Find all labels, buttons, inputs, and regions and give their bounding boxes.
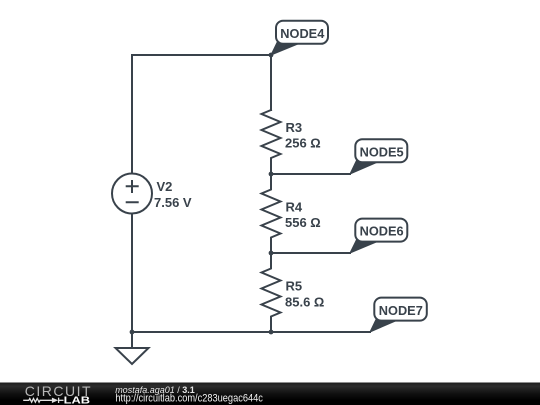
svg-text:NODE4: NODE4 (280, 26, 325, 41)
node flag NODE6 (350, 219, 407, 253)
svg-text:85.6 Ω: 85.6 Ω (285, 294, 324, 309)
wire left vertical upper (top wire to V2 + terminal) (131, 55, 133, 174)
svg-text:LAB: LAB (64, 395, 91, 405)
svg-text:NODE6: NODE6 (360, 224, 404, 239)
svg-text:256 Ω: 256 Ω (285, 136, 321, 151)
svg-text:http://circuitlab.com/c283uega: http://circuitlab.com/c283uegac644c (115, 392, 263, 404)
svg-text:R4: R4 (286, 200, 303, 215)
junction dot node NODE5 (269, 172, 274, 177)
node flag NODE4 (271, 21, 328, 55)
wire vertical (NODE4 junction to R3) (270, 55, 272, 110)
junction dot node NODE6 (269, 251, 274, 256)
resistor R5 (262, 253, 281, 332)
wire top horizontal (V2+ to NODE4 junction) (132, 54, 271, 56)
svg-text:NODE5: NODE5 (360, 144, 404, 159)
junction dot node NODE7 (269, 330, 274, 335)
svg-text:NODE7: NODE7 (379, 303, 423, 318)
logo resistor-diode icon (23, 398, 63, 403)
svg-text:556 Ω: 556 Ω (285, 215, 321, 230)
resistor R4 (262, 174, 281, 253)
logo diode triangle (52, 398, 58, 403)
junction dot ground node (130, 330, 135, 335)
junction dot node NODE4 (269, 53, 274, 58)
svg-text:R5: R5 (286, 279, 303, 294)
wire NODE6 horizontal (271, 252, 350, 254)
voltage source V2 (112, 174, 152, 214)
wire ground stem (131, 332, 133, 348)
wire left vertical lower (V2 - terminal to bottom wire) (131, 214, 133, 333)
svg-text:V2: V2 (157, 179, 173, 194)
node flag NODE7 (370, 298, 427, 332)
svg-text:7.56 V: 7.56 V (154, 195, 192, 210)
ground symbol (116, 348, 149, 364)
resistor R3 (262, 110, 281, 174)
node flag NODE5 (350, 139, 407, 174)
svg-text:R3: R3 (286, 120, 303, 135)
wire NODE5 horizontal (271, 173, 350, 175)
wire bottom horizontal (ground to NODE7) (132, 331, 370, 333)
